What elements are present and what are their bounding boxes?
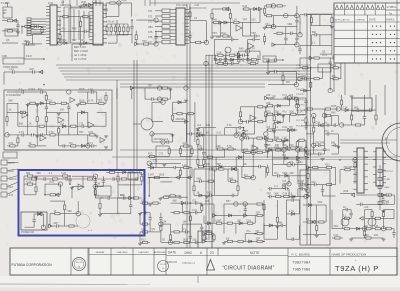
svg-text:NAME OF PRODUCTION: NAME OF PRODUCTION [332,252,367,256]
svg-text:AUX: AUX [9,194,14,197]
svg-text:22P: 22P [266,94,271,97]
svg-text:56K: 56K [68,210,73,213]
svg-text:ST1: ST1 [148,10,153,13]
svg-text:0.1: 0.1 [19,88,23,91]
svg-text:VR2: VR2 [282,172,287,175]
svg-text:ANNUL: ANNUL [386,18,395,22]
svg-text:8.4V: 8.4V [384,203,389,205]
svg-text:NOTE: NOTE [250,251,260,255]
svg-text:0.047: 0.047 [29,88,36,91]
svg-text:P11 PT2: P11 PT2 [296,94,305,96]
svg-text:0.01: 0.01 [333,234,338,237]
svg-text:1K: 1K [53,210,56,213]
svg-text:IC3: IC3 [38,88,43,91]
svg-text:C71: C71 [322,54,327,57]
svg-text:C71: C71 [79,122,84,125]
svg-text:R45: R45 [344,190,349,193]
svg-text:C34: C34 [298,161,303,164]
svg-text:1K: 1K [266,136,269,139]
svg-text:NET: NET [9,187,14,189]
svg-text:GAIN: GAIN [384,186,390,189]
svg-text:2.2K: 2.2K [343,106,348,109]
svg-text:DESIGN: DESIGN [96,252,105,254]
svg-text:1815: 1815 [298,185,304,188]
svg-text:TUNE: TUNE [384,179,390,181]
svg-text:C34: C34 [242,5,247,8]
svg-text:TR7: TR7 [266,193,271,196]
svg-text:IC3: IC3 [289,161,294,164]
svg-text:T9ZA (H) P: T9ZA (H) P [335,264,379,273]
svg-text:OUTPUT: OUTPUT [384,171,394,173]
svg-text:C71: C71 [153,160,158,163]
svg-text:56K: 56K [275,136,280,139]
svg-text:22P: 22P [256,238,261,241]
svg-text:47C 1444: 47C 1444 [176,4,187,7]
svg-text:IC3: IC3 [282,180,287,183]
svg-text:2SC945: 2SC945 [154,138,164,141]
svg-text:47u: 47u [282,111,287,114]
svg-text:IC10: IC10 [48,2,54,5]
svg-text:0.1: 0.1 [49,172,53,175]
svg-text:C34: C34 [88,131,93,134]
svg-text:L14: L14 [60,122,65,125]
svg-text:CHARGE: CHARGE [356,18,366,21]
svg-text:L14: L14 [232,19,237,22]
svg-text:L14: L14 [88,88,93,91]
svg-text:56K: 56K [331,142,336,145]
svg-text:2.2K: 2.2K [61,172,66,175]
svg-text:PC2 AM: PC2 AM [296,124,304,127]
svg-text:4.7K: 4.7K [228,60,233,63]
svg-text:VBA: VBA [148,26,153,29]
svg-text:XTAL: XTAL [128,170,134,173]
svg-text:0.1: 0.1 [312,42,316,45]
svg-text:22P: 22P [289,172,294,175]
svg-text:TR7: TR7 [226,200,231,203]
svg-text:330: 330 [206,124,211,127]
svg-text:92.6.25: 92.6.25 [160,264,166,266]
svg-text:10K: 10K [205,200,210,203]
svg-text:IC3: IC3 [282,185,287,188]
svg-text:APPLICATION: APPLICATION [335,18,350,21]
svg-text:C34: C34 [182,142,187,145]
svg-text:2SC945: 2SC945 [315,142,325,145]
svg-text:100: 100 [206,163,211,166]
svg-text:2SC945: 2SC945 [344,166,354,169]
svg-text:C71: C71 [159,153,164,156]
svg-text:1815: 1815 [79,100,85,103]
svg-text:C71: C71 [324,130,329,133]
svg-text:4.7K: 4.7K [197,145,202,148]
svg-text:CN6: CN6 [2,55,7,58]
svg-text:680: 680 [229,177,234,180]
svg-text:BT: BT [4,12,8,15]
svg-text:TR7: TR7 [97,100,102,103]
svg-text:TR7: TR7 [242,19,247,22]
svg-text:22P: 22P [266,102,271,105]
svg-text:R12: R12 [221,32,226,35]
svg-text:0.047: 0.047 [148,174,155,177]
svg-text:C71: C71 [88,142,93,145]
svg-text:DWG NO: DWG NO [167,261,177,264]
svg-text:680: 680 [364,234,369,237]
svg-text:IC3: IC3 [266,126,271,129]
svg-text:P. C. BOARD: P. C. BOARD [292,252,311,256]
svg-text:T9B3 T9B4: T9B3 T9B4 [293,261,311,265]
svg-text:L14: L14 [9,68,14,71]
svg-text:56K: 56K [274,193,279,196]
svg-text:680: 680 [26,172,31,175]
svg-text:IC11: IC11 [92,1,98,4]
svg-text:C34: C34 [315,121,320,124]
svg-text:ST6: ST6 [148,36,153,39]
svg-text:0.01: 0.01 [274,146,279,149]
svg-text:R45: R45 [81,1,86,4]
svg-text:4.7K: 4.7K [49,131,54,134]
svg-text:1K: 1K [206,131,209,134]
svg-text:Air 1 16SF: Air 1 16SF [74,53,87,57]
svg-text:330: 330 [192,239,197,242]
svg-text:1815: 1815 [79,88,85,91]
svg-text:C71: C71 [244,134,249,137]
svg-text:R12: R12 [249,60,254,63]
svg-text:C71: C71 [282,94,287,97]
svg-text:22P: 22P [53,222,58,225]
svg-text:VR2: VR2 [317,201,322,204]
svg-text:L14: L14 [197,124,202,127]
svg-text:FUTABA CORPORATION: FUTABA CORPORATION [12,263,53,267]
svg-text:CHECKED: CHECKED [138,252,149,254]
svg-text:6: 6 [200,251,202,255]
svg-text:4.7K: 4.7K [26,180,31,183]
svg-text:IC3: IC3 [364,206,369,209]
svg-text:2.2K: 2.2K [194,4,199,7]
svg-text:56K: 56K [37,172,42,175]
svg-text:1K: 1K [196,192,199,195]
svg-text:0.047: 0.047 [121,0,128,2]
svg-text:0.047: 0.047 [26,55,33,58]
svg-text:56K: 56K [266,144,271,147]
svg-text:0.01: 0.01 [192,209,197,212]
svg-text:ST5: ST5 [148,31,153,34]
svg-text:10K: 10K [216,145,221,148]
svg-text:VR2: VR2 [333,225,338,228]
svg-text:1815: 1815 [183,239,189,242]
svg-text:0.1: 0.1 [306,121,310,124]
svg-text:SYMBOL: SYMBOL [387,6,398,9]
svg-text:R45: R45 [216,36,221,39]
svg-text:22P: 22P [256,212,261,215]
svg-text:0.01: 0.01 [289,210,294,213]
svg-text:DATE: DATE [369,18,376,22]
svg-text:R12: R12 [325,164,330,167]
svg-text:IC4 NJM2902: IC4 NJM2902 [6,94,21,97]
svg-text:R45: R45 [331,112,336,115]
svg-text:TR7: TR7 [286,81,291,84]
svg-text:PC1 FM: PC1 FM [296,120,304,122]
svg-text:GND: GND [9,171,14,173]
svg-text:Ball: 1 NC: Ball: 1 NC [74,45,86,49]
svg-text:Q5: Q5 [289,126,293,129]
svg-text:VR-A: VR-A [384,194,390,197]
svg-text:2.2K: 2.2K [216,51,221,54]
svg-text:Ball: 2 GND: Ball: 2 GND [74,49,88,53]
svg-text:56K: 56K [312,31,317,34]
svg-text:TX-9Z: TX-9Z [1,2,8,5]
svg-text:C71: C71 [265,23,270,26]
svg-text:1K: 1K [29,122,32,125]
svg-text:10B-511C1: 10B-511C1 [182,261,195,265]
svg-text:TR7: TR7 [142,40,147,43]
svg-text:1K: 1K [29,142,32,145]
svg-text:680: 680 [173,199,178,202]
svg-text:22P: 22P [29,68,34,71]
svg-text:4.7K x6: 4.7K x6 [106,21,115,24]
svg-text:P15 PT6: P15 PT6 [296,115,305,117]
svg-text:TR7: TR7 [72,39,77,42]
svg-text:TR7: TR7 [212,32,217,35]
svg-text:4.7K: 4.7K [227,124,232,127]
svg-text:100: 100 [60,109,65,112]
svg-text:ST2: ST2 [148,15,153,18]
svg-text:100: 100 [275,111,280,114]
svg-text:C71: C71 [141,228,146,231]
svg-text:C34: C34 [246,219,251,222]
svg-text:Q5: Q5 [148,84,152,87]
svg-text:TR7: TR7 [79,131,84,134]
svg-text:56K: 56K [278,222,283,225]
svg-text:L14: L14 [282,136,287,139]
svg-text:VR2: VR2 [287,23,292,26]
svg-text:56K: 56K [19,122,24,125]
svg-text:0.01: 0.01 [282,126,287,129]
svg-text:100: 100 [237,219,242,222]
svg-text:VR2: VR2 [196,177,201,180]
svg-text:0.1: 0.1 [274,185,278,188]
svg-text:0.047: 0.047 [298,180,305,183]
svg-text:CHECKED: CHECKED [117,252,128,254]
svg-text:680: 680 [354,106,359,109]
svg-text:10K: 10K [289,144,294,147]
svg-text:1K: 1K [8,109,11,112]
svg-text:47u: 47u [246,230,251,233]
svg-text:23: 23 [210,251,214,255]
svg-text:0.1: 0.1 [275,126,279,129]
svg-text:100: 100 [251,19,256,22]
svg-text:330: 330 [311,181,316,184]
svg-text:TR7: TR7 [216,163,221,166]
svg-text:SERVO: SERVO [9,179,17,181]
svg-text:Air 2 2760: Air 2 2760 [74,57,87,61]
svg-text:“CIRCUIT DIAGRAM”: “CIRCUIT DIAGRAM” [222,265,275,271]
svg-text:R12: R12 [26,41,31,44]
svg-text:R12: R12 [148,153,153,156]
svg-text:10K: 10K [289,111,294,114]
svg-text:R45: R45 [239,47,244,50]
svg-text:0.047: 0.047 [289,196,296,199]
svg-text:T9B5 T9B6: T9B5 T9B6 [293,268,311,272]
svg-text:2SC945: 2SC945 [176,118,186,121]
svg-text:0.01: 0.01 [207,192,212,195]
svg-text:R45: R45 [212,19,217,22]
svg-text:1K: 1K [343,206,346,209]
svg-text:POWER-SW: POWER-SW [21,232,35,234]
svg-text:10K: 10K [374,234,379,237]
svg-text:C34: C34 [282,193,287,196]
svg-text:0.1: 0.1 [343,215,347,218]
svg-text:2.2K: 2.2K [298,111,303,114]
svg-text:TR7: TR7 [251,32,256,35]
svg-text:47u: 47u [244,174,249,177]
svg-text:0.047: 0.047 [215,219,222,222]
svg-text:+ +: + + [88,228,93,232]
svg-text:330: 330 [228,36,233,39]
svg-text:56K: 56K [8,100,13,103]
svg-text:4.7K: 4.7K [88,100,93,103]
svg-text:0.1: 0.1 [183,228,187,231]
svg-text:4.7K: 4.7K [227,145,232,148]
svg-text:P10 PT1: P10 PT1 [296,89,305,91]
svg-text:92.6.25: 92.6.25 [76,262,82,264]
svg-text:0.01: 0.01 [216,131,221,134]
svg-text:1815: 1815 [49,180,55,183]
svg-text:10K: 10K [183,220,188,223]
svg-text:2.2K: 2.2K [306,150,311,153]
svg-text:L14: L14 [182,164,187,167]
svg-text:R12: R12 [141,239,146,242]
svg-text:DATE: DATE [168,251,176,255]
svg-text:R12: R12 [216,60,221,63]
svg-text:ST3: ST3 [148,21,153,24]
svg-text:R45: R45 [120,194,125,197]
svg-text:APPROVED: APPROVED [154,251,167,254]
svg-text:1K: 1K [244,163,247,166]
svg-text:C71: C71 [266,111,271,114]
svg-text:0.01: 0.01 [8,142,13,145]
svg-text:IC3: IC3 [192,199,197,202]
svg-text:TR7: TR7 [244,130,249,133]
svg-text:4.7K: 4.7K [19,131,24,134]
svg-text:1992: 1992 [184,251,192,255]
